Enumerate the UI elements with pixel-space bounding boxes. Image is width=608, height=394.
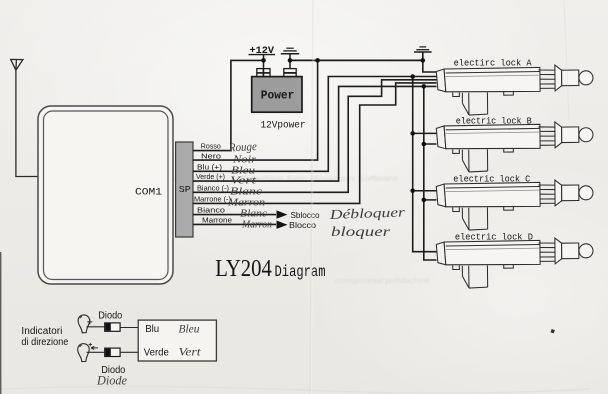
ground symbol (power) [281, 48, 299, 54]
wire +12V stem [263, 55, 265, 69]
svg-text:Blu: Blu [145, 323, 159, 335]
wire branch lock B upper [413, 132, 437, 134]
svg-text:COM1: COM1 [135, 187, 162, 199]
wire Rosso [193, 60, 264, 150]
wire bulb1-diode1 [87, 326, 105, 328]
svg-text:Marrone: Marrone [202, 216, 232, 225]
indicator bulb 1 [78, 315, 92, 333]
svg-text:LY204: LY204 [215, 255, 271, 282]
svg-text:Rosso: Rosso [201, 142, 221, 151]
junction dot C lower [422, 198, 427, 203]
svg-text:12Vpower: 12Vpower [261, 119, 306, 130]
svg-text:electric lock C: electric lock C [453, 174, 530, 184]
wire branch lock C lower [424, 199, 437, 201]
svg-text:unregistered pdfMachine: unregistered pdfMachine [335, 278, 430, 285]
wire Blu (+) [193, 77, 437, 172]
svg-text:SP: SP [179, 184, 191, 195]
svg-text:electirc lock A: electirc lock A [454, 58, 533, 68]
svg-text:Marron: Marron [241, 219, 272, 231]
junction dot +12V [261, 58, 266, 63]
paper crease vertical right [564, 0, 569, 120]
svg-text:Verde (+): Verde (+) [196, 172, 225, 181]
junction dot B upper [410, 131, 415, 136]
wire antenna lead [16, 70, 38, 176]
diode D1 [105, 323, 120, 331]
paper crease vertical [310, 0, 314, 394]
wire ground stem (power) [289, 54, 291, 69]
electric lock A [436, 65, 593, 116]
electric lock D [436, 238, 593, 289]
svg-text:Nero: Nero [201, 151, 221, 160]
junction dot bus-Blu top [410, 74, 415, 79]
wire Bianco (Sblocco) [193, 214, 276, 216]
ink speck [551, 329, 555, 333]
svg-text:Bleu: Bleu [179, 324, 200, 336]
electric lock C [436, 180, 593, 231]
svg-text:Bianco: Bianco [197, 206, 225, 215]
svg-text:Verde: Verde [144, 347, 169, 359]
wire Marrone (Blocco) [193, 223, 276, 225]
diode D2 [105, 348, 120, 356]
junction dot GND rail end [421, 58, 426, 63]
arrow Blocco [277, 221, 288, 229]
svg-text:Indicatori: Indicatori [21, 326, 62, 337]
svg-text:Blu (+): Blu (+) [197, 162, 223, 171]
wire bus Verde (down to locks) [424, 86, 437, 260]
wire bus Blu (down to locks) [413, 77, 437, 252]
svg-text:Bianco (-): Bianco (-) [197, 183, 229, 192]
connector SP [176, 142, 193, 237]
wire Verde (+) [193, 86, 437, 181]
svg-text:electric lock B: electric lock B [456, 116, 532, 126]
svg-text:bloquer: bloquer [331, 224, 391, 239]
legend box [138, 320, 216, 361]
svg-text:Diode: Diode [96, 374, 127, 388]
svg-text:Diodo: Diodo [98, 310, 123, 321]
svg-text:Vert: Vert [179, 347, 202, 359]
svg-text:Débloquer: Débloquer [328, 204, 406, 222]
power supply terminals [257, 69, 296, 78]
junction dot Nero/GND [315, 58, 320, 63]
svg-text:Marrone (-): Marrone (-) [194, 195, 231, 204]
indicator bulb 2 [78, 343, 98, 362]
svg-text:Rouge: Rouge [228, 139, 258, 155]
junction dot B lower [422, 142, 427, 147]
wire ground stem to lock A [423, 52, 437, 72]
wire GND rail [290, 59, 423, 61]
svg-text:Diagram: Diagram [275, 263, 326, 281]
wire branch lock C upper [413, 190, 437, 192]
arrow Sblocco [277, 210, 288, 218]
svg-text:di direzione: di direzione [21, 337, 69, 348]
junction dot bus-Verde top [422, 84, 427, 89]
scan edge left [0, 252, 1, 394]
electric lock B [436, 122, 593, 173]
junction dot gnd-power [288, 58, 293, 63]
antenna [11, 59, 23, 70]
ground symbol (locks) [414, 47, 432, 52]
control unit COM1 [38, 106, 173, 284]
wire Nero [193, 60, 318, 160]
wire Marrone (-) [193, 83, 437, 203]
wire diode1-box [120, 327, 138, 329]
svg-text:Power: Power [261, 90, 295, 103]
wire branch lock B lower [424, 143, 437, 145]
junction dot C upper [410, 188, 415, 193]
wire bulb2-diode2 [87, 351, 105, 353]
paper crease bottom [0, 386, 590, 393]
power supply box [252, 77, 302, 113]
svg-text:Sblocco: Sblocco [291, 211, 321, 220]
+12V label [249, 46, 276, 57]
wire Bianco (-) [193, 80, 437, 193]
svg-text:electric lock D: electric lock D [455, 233, 533, 243]
wire diode2-box [120, 351, 138, 353]
